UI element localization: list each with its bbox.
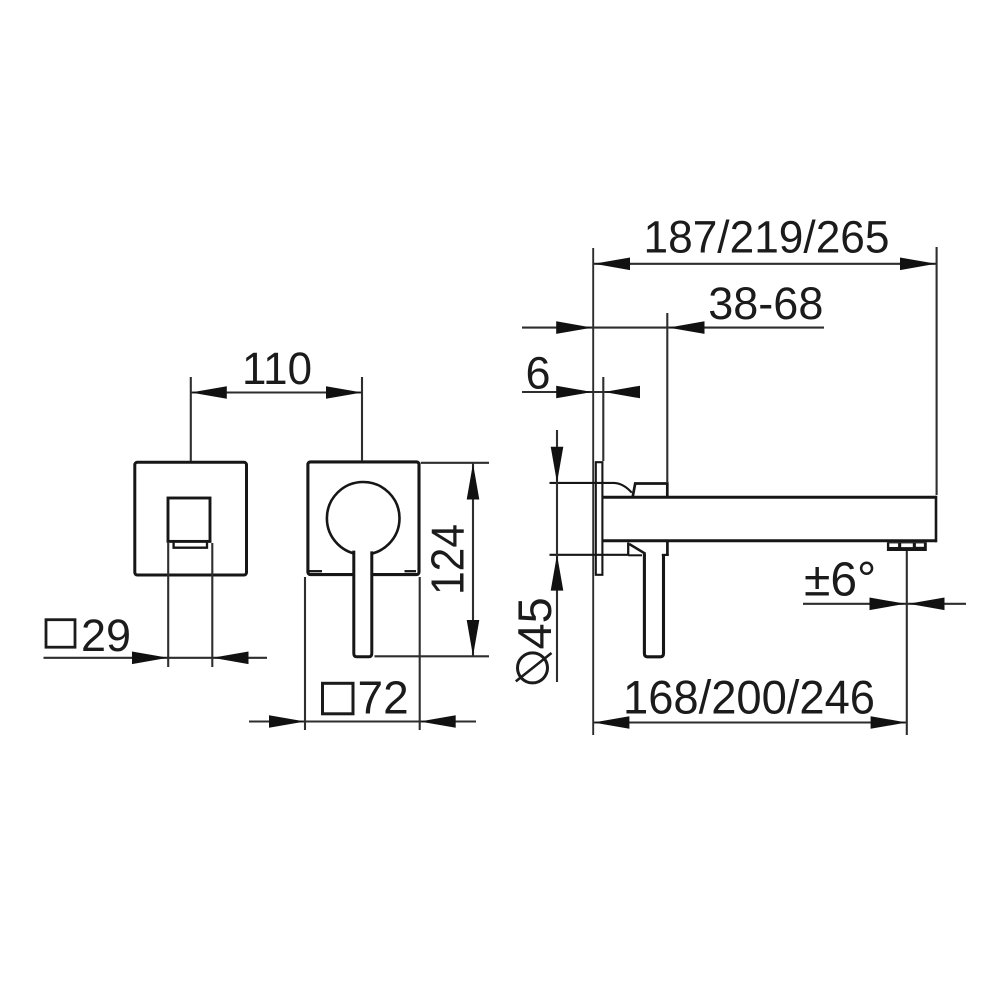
arrow pm6 right [909, 598, 945, 611]
sq72 right ext [419, 577, 421, 730]
arrow 38-68 left [556, 321, 592, 334]
168 dim line [593, 721, 907, 723]
sq29 right ext [211, 543, 213, 667]
wall line [592, 248, 594, 735]
side lever shaft [644, 554, 663, 657]
aerator slot 2 [901, 543, 913, 547]
38-68 ext [666, 313, 668, 483]
arrow sq29 right [213, 652, 249, 665]
spout tube bottom edge [602, 539, 936, 542]
124 dim line [472, 463, 474, 656]
dia45 dim line [556, 430, 558, 682]
svg-text:38-68: 38-68 [708, 278, 823, 329]
label square symbol 72 [323, 683, 354, 714]
187 right ext [936, 247, 938, 495]
notch dash left [309, 570, 322, 572]
svg-text:72: 72 [358, 672, 409, 724]
lower wedge slant [629, 544, 645, 554]
handle knob circle [327, 482, 400, 555]
arrow 124 bottom [467, 620, 480, 656]
arrow 187 left [594, 258, 630, 271]
notch dash right [405, 570, 417, 572]
arrow sq72 right [420, 715, 456, 728]
aerator box side [887, 542, 927, 551]
lower wedge bottom [628, 554, 642, 556]
168 right ext / aerator centerline [906, 551, 908, 735]
110 left ext [190, 377, 192, 461]
spout tube inner square [168, 498, 210, 541]
svg-text:45: 45 [508, 597, 561, 649]
124 bottom ext [375, 655, 490, 657]
lower adapter right edge [666, 542, 669, 555]
arrow 124 top [467, 464, 480, 500]
label dia45 slash of diameter symbol [516, 653, 552, 681]
110 right ext [361, 377, 363, 461]
svg-text:168/200/246: 168/200/246 [623, 671, 875, 724]
sq29 dim line [44, 657, 268, 659]
spout tube top edge [602, 496, 936, 499]
svg-text:±6°: ±6° [804, 554, 876, 607]
arrow 6 left [556, 386, 592, 399]
arrow dia45 top [551, 447, 564, 483]
arrow sq72 left [269, 715, 305, 728]
lower wedge left edge [627, 543, 629, 556]
arrow dia45 bottom [551, 555, 564, 591]
label square symbol 29 [46, 620, 75, 648]
svg-text:110: 110 [242, 343, 312, 394]
upper rosette dome curve [550, 483, 632, 493]
110 dim line [191, 391, 362, 393]
aerator slot 1 [889, 543, 898, 547]
6 dim line [522, 391, 640, 393]
handle outer square plate [308, 462, 419, 575]
38-68 dim line [522, 327, 824, 329]
arrow sq29 left [132, 652, 168, 665]
6 ext plate face [602, 377, 604, 461]
187 dim line [593, 263, 936, 265]
svg-text:6: 6 [525, 348, 550, 399]
lower rosette tangent [550, 554, 629, 556]
svg-text:29: 29 [81, 610, 131, 661]
arrow 6 right [604, 386, 640, 399]
aerator slot U [174, 543, 207, 548]
spout outer square plate [135, 462, 247, 575]
arrow 110 left [191, 386, 227, 399]
pm6 dim line [803, 603, 966, 605]
arrow 168 left [593, 716, 629, 729]
label dia45 circle of diameter symbol [518, 653, 548, 683]
sq29 left ext [167, 543, 169, 667]
upper adapter trapezoid [633, 484, 668, 498]
sq72 dim line [249, 720, 476, 722]
svg-text:124: 124 [422, 524, 474, 595]
aerator slot 3 [916, 543, 924, 546]
sq72 left ext [304, 577, 306, 730]
wall plate edge-on [596, 462, 603, 575]
front lever (fills white over circle arc + square bottom edge) [354, 548, 372, 657]
arrow 38-68 right [669, 321, 705, 334]
lower adapter bottom cap [662, 554, 669, 556]
arrow 110 right [326, 386, 362, 399]
svg-text:187/219/265: 187/219/265 [644, 212, 890, 263]
arrow pm6 left [870, 598, 906, 611]
arrow 168 right [871, 716, 907, 729]
124 top ext [421, 462, 489, 464]
spout end face [935, 496, 938, 543]
arrow 187 right [900, 258, 936, 271]
